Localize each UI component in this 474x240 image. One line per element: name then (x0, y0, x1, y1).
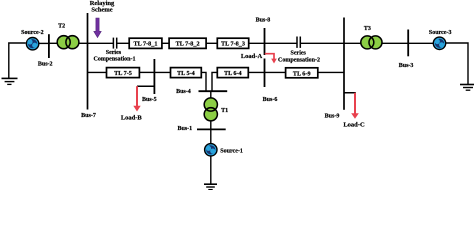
wire Source-1 to ground (210, 156, 212, 184)
wire T2 to Bus-7 (79, 42, 88, 44)
svg-text:Bus-3: Bus-3 (399, 63, 414, 69)
svg-text:TL 7-8_1: TL 7-8_1 (134, 40, 158, 47)
wire Bus-7 to C1 (88, 42, 114, 44)
source S2 (Source-2 generator) (26, 38, 38, 50)
bus Bus-4 (199, 90, 228, 92)
svg-text:TL 6-9: TL 6-9 (293, 70, 311, 77)
svg-text:Source-3: Source-3 (429, 30, 452, 36)
transformer T2 (57, 36, 79, 49)
bus Bus-5 (153, 59, 155, 94)
wire TL 7-8_1 to TL 7-8_2 (162, 42, 170, 44)
wire Bus-5 to TL 5-4 (154, 71, 170, 73)
svg-text:TL 5-4: TL 5-4 (177, 70, 195, 77)
svg-text:Scheme: Scheme (91, 6, 112, 13)
ground G3 (right) (460, 85, 474, 91)
svg-text:T3: T3 (364, 26, 371, 32)
block TL 5-4 (171, 68, 202, 78)
bus Bus-7 (87, 13, 89, 110)
svg-text:Source-1: Source-1 (220, 148, 243, 154)
block TL 7-8_3 (217, 38, 248, 48)
wire TL 7-8_2 to TL 7-8_3 (206, 42, 218, 44)
svg-text:Load-A: Load-A (241, 53, 263, 60)
svg-text:Bus-6: Bus-6 (263, 97, 278, 103)
svg-text:TL 7-5: TL 7-5 (114, 70, 132, 77)
source S3 (Source-3 generator) (433, 37, 445, 49)
bus Bus-1 (197, 128, 226, 130)
wire left from Source-2 to ground corner (9, 43, 26, 78)
ground G2 (left) (2, 78, 18, 84)
wire T1 to Bus-1 (210, 121, 212, 130)
svg-text:Source-2: Source-2 (21, 30, 44, 36)
capacitor C2 (Series Compensation-2) (297, 37, 300, 48)
svg-text:T2: T2 (58, 23, 65, 29)
load Load-A (red tap arrow) (265, 54, 277, 64)
bus Bus-8 (264, 28, 266, 55)
svg-text:Series: Series (106, 50, 122, 56)
wire C2 to T3 across Bus-9 (301, 42, 362, 44)
wire Source-2 to Bus-2 (39, 42, 50, 44)
relaying scheme pointer arrow (94, 18, 101, 37)
svg-text:Compensation-2: Compensation-2 (278, 57, 320, 63)
wire Bus-2 to T2 (49, 42, 58, 44)
svg-text:Bus-9: Bus-9 (325, 113, 340, 119)
bus Bus-6 (264, 59, 266, 88)
svg-text:Bus-1: Bus-1 (177, 126, 192, 132)
wire Bus-7 to TL 7-5 (row 2) (88, 71, 107, 73)
block TL 7-8_2 (169, 38, 206, 48)
svg-text:Bus-8: Bus-8 (256, 18, 271, 24)
svg-text:Load-B: Load-B (121, 115, 143, 122)
bus Bus-3 (407, 30, 409, 57)
transformer T1 (204, 98, 217, 121)
svg-text:Bus-2: Bus-2 (38, 62, 53, 68)
svg-text:Bus-7: Bus-7 (81, 113, 96, 119)
svg-text:Bus-5: Bus-5 (142, 97, 157, 103)
ground G1 (bottom) (204, 184, 217, 189)
block TL 6-9 (286, 68, 318, 78)
wire TL 5-4 down to Bus-4 (201, 72, 206, 90)
svg-text:TL 7-8_3: TL 7-8_3 (221, 40, 245, 47)
wire TL 7-8_3 to C2 across Bus-8 (249, 42, 297, 44)
capacitor C1 (Series Compensation-1) (113, 38, 116, 49)
wire C1 to TL 7-8_1 (117, 42, 129, 44)
svg-text:T1: T1 (221, 108, 228, 114)
wire T3 to Source-3 across Bus-3 (382, 42, 434, 44)
bus Bus-9 (343, 18, 345, 110)
wire Bus-4 to T1 (210, 91, 212, 98)
wire TL 6-4 to TL 6-9 across Bus-6 (248, 71, 286, 73)
wire TL 7-5 to Bus-5 (139, 71, 154, 73)
load Load-C (tap and red arrow) (344, 93, 359, 119)
wire Source-3 to ground corner (446, 43, 468, 84)
block TL 7-5 (107, 68, 140, 78)
load Load-B (tap and red arrow) (133, 86, 153, 111)
wire TL 6-9 to Bus-9 (318, 71, 344, 73)
svg-text:Series: Series (291, 50, 307, 56)
svg-text:Compensation-1: Compensation-1 (93, 56, 135, 62)
transformer T3 (361, 36, 382, 49)
svg-text:Load-C: Load-C (343, 121, 365, 128)
source S1 (Source-1 generator) (205, 144, 217, 156)
svg-text:TL 7-8_2: TL 7-8_2 (176, 40, 200, 47)
svg-text:Bus-4: Bus-4 (176, 89, 191, 95)
block TL 6-4 (217, 68, 248, 78)
svg-text:TL 6-4: TL 6-4 (224, 70, 242, 77)
bus Bus-2 (48, 34, 50, 58)
block TL 7-8_1 (129, 38, 162, 48)
wire Bus-1 to Source-1 (210, 129, 212, 144)
wire Bus-4 up to TL 6-4 (212, 72, 218, 90)
